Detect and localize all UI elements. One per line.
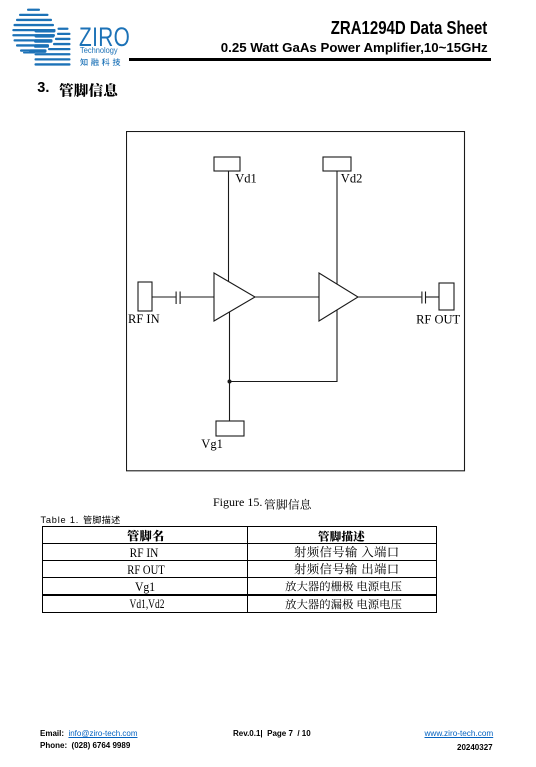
svg-text:RF IN: RF IN (128, 312, 160, 326)
svg-text:Vd1: Vd1 (235, 172, 257, 186)
svg-text:Vd2: Vd2 (341, 172, 363, 186)
svg-text:RF OUT: RF OUT (416, 312, 460, 326)
svg-text:Vg1: Vg1 (201, 437, 223, 451)
